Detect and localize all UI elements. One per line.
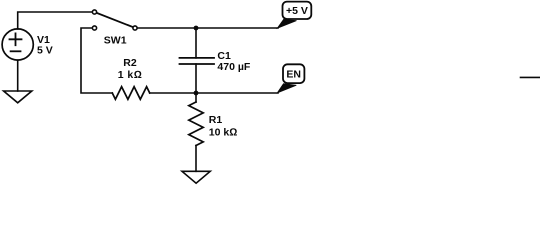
net flag +5V box [283, 2, 312, 19]
wire switch lower-left down to R2 [81, 28, 112, 93]
SW1 contact right (common) [133, 26, 137, 30]
wire switch common to +5V flag (top rail) [138, 27, 278, 29]
svg-text:SW1: SW1 [104, 34, 127, 46]
SW1 contact top-left [92, 10, 96, 14]
resistor R2 [112, 87, 149, 100]
node junction bottom (dot) [194, 91, 199, 96]
wire junction down to R1 [195, 93, 197, 102]
capacitor C1 [180, 58, 215, 64]
resistor R1 [189, 102, 203, 146]
wire R2 to bottom junction [150, 92, 196, 94]
SW1 blade [97, 13, 133, 27]
SW1 contact lower-left [92, 26, 96, 30]
wire R1 to ground [195, 146, 197, 172]
svg-text:10 kΩ: 10 kΩ [209, 126, 238, 138]
wire V1 top to switch [18, 12, 92, 29]
wire C1 to bottom junction [195, 64, 197, 93]
wire bottom junction to EN flag [196, 92, 278, 94]
V1 plus sign [10, 33, 22, 45]
svg-text:1 kΩ: 1 kΩ [118, 69, 142, 81]
wire V1 bottom to ground [17, 60, 19, 91]
svg-text:5 V: 5 V [37, 44, 53, 56]
svg-text:EN: EN [286, 69, 301, 81]
switch SW1 [92, 10, 137, 30]
svg-text:470 µF: 470 µF [217, 61, 250, 73]
wire top junction to C1 [195, 28, 197, 58]
voltage source V1 [2, 29, 33, 60]
svg-text:R2: R2 [123, 57, 137, 69]
net flag +5V pointer wedge [277, 19, 296, 28]
stray wire dash at right edge [521, 76, 540, 78]
node junction top (dot) [194, 26, 199, 31]
ground (bottom, under R1) [182, 171, 210, 183]
net flag EN pointer wedge [277, 84, 296, 93]
net flag EN box [283, 64, 304, 83]
svg-text:R1: R1 [209, 114, 223, 126]
ground (left, under V1) [4, 91, 32, 103]
svg-text:+5 V: +5 V [286, 5, 308, 17]
V1 minus sign [11, 50, 21, 52]
